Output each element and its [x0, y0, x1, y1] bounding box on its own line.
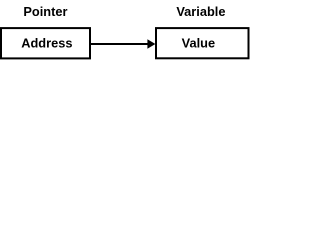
wire arrow shaft from Address box to Value box: [91, 43, 149, 45]
arrowhead pointing at Value box: [147, 39, 155, 49]
svg-text:Address: Address: [21, 36, 72, 51]
svg-text:Value: Value: [182, 36, 215, 51]
box Value (variable cell): [156, 28, 249, 58]
svg-text:Pointer: Pointer: [23, 4, 67, 19]
box Address (pointer cell): [1, 28, 90, 58]
svg-text:Variable: Variable: [176, 4, 225, 19]
